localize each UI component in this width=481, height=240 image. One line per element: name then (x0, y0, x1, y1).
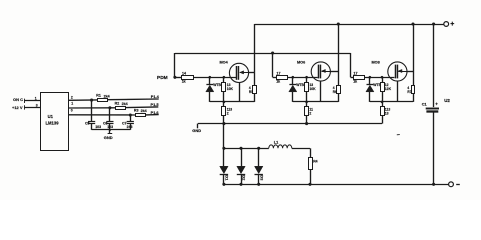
svg-text:GND: GND (192, 128, 201, 133)
svg-text:2: 2 (71, 96, 73, 100)
wire PDM riser (174, 53, 176, 77)
wire source rail MO6 (293, 101, 339, 103)
node sense-bus MO4 (222, 122, 225, 125)
svg-text:2: 2 (309, 111, 311, 115)
svg-text:MO6: MO6 (297, 61, 305, 65)
terminal + output (444, 22, 449, 27)
svg-text:1: 1 (35, 96, 37, 100)
capacitor C6 103 (109, 108, 111, 122)
resistor gate-source 10K MO4 (223, 77, 225, 82)
resistor R3 2k4 (136, 114, 146, 117)
ground GND stub (197, 124, 199, 129)
node rail-sense MO4 (223, 101, 226, 104)
svg-text:R1: R1 (96, 94, 101, 98)
svg-text:+: + (450, 21, 454, 28)
svg-text:2k4: 2k4 (141, 109, 147, 113)
resistor R1 2k4 (98, 99, 108, 102)
wire output line 3 to P1.6 (146, 114, 159, 116)
svg-text:12K: 12K (385, 87, 392, 91)
wire inductor to R14 (292, 148, 310, 150)
svg-text:17: 17 (354, 72, 358, 76)
wire output line 2 (69, 107, 116, 109)
svg-text:WTB: WTB (296, 83, 304, 87)
svg-text:U1: U1 (48, 114, 54, 119)
resistor drain-rail MO8 (413, 71, 415, 86)
resistor sense MO6 (306, 102, 308, 107)
wire source MO8 (397, 81, 399, 102)
svg-text:+12 V: +12 V (12, 105, 23, 110)
node gate-resistor MO8 (381, 76, 384, 79)
wire right rail upper (433, 24, 435, 107)
svg-text:C1: C1 (422, 103, 427, 107)
svg-text:2k4: 2k4 (104, 94, 110, 98)
resistor R2 2k4 (116, 107, 126, 110)
svg-text:2: 2 (227, 111, 229, 115)
zener diode WTB (209, 77, 211, 84)
node rail-sense MO6 (305, 101, 308, 104)
wire source rail MO8 (370, 101, 413, 103)
wire source rail MO4 (210, 101, 255, 103)
MOSFET MO6 (311, 62, 330, 81)
node gate-zener MO8 (369, 76, 372, 79)
wire negative bottom bus (224, 184, 449, 186)
resistor drain-rail MO6 (338, 71, 340, 86)
zener diode WTB (292, 77, 294, 84)
diode D3 (257, 147, 260, 150)
svg-text:1k: 1k (276, 80, 280, 84)
svg-text:GND: GND (104, 135, 113, 140)
wire source MO4 (239, 83, 241, 102)
node R14-bus (308, 183, 311, 186)
svg-text:R4: R4 (313, 160, 317, 164)
IC U1 LM139 box (41, 93, 69, 151)
resistor R14 (309, 158, 313, 170)
svg-text:LM139: LM139 (46, 120, 60, 125)
node gate-zener MO4 (209, 76, 212, 79)
inductor L1 (269, 145, 292, 148)
svg-text:D3: D3 (259, 175, 264, 181)
svg-text:10K: 10K (227, 87, 234, 91)
wire drain riser MO8 (413, 24, 415, 71)
capacitor C5 103 (91, 100, 93, 122)
resistor gate-source 10K MO6 (306, 77, 308, 82)
wire capacitor common (92, 129, 131, 131)
node stage3 drain-top (411, 22, 414, 25)
wire drain riser MO6 (338, 24, 340, 71)
wire gate MO4 (193, 77, 236, 79)
svg-text:PDM: PDM (157, 75, 168, 81)
svg-text:MO4: MO4 (220, 61, 229, 65)
svg-text:C5: C5 (85, 121, 90, 125)
svg-text:103: 103 (95, 125, 101, 129)
wire gate MO8 (365, 77, 395, 79)
wire positive top rail (255, 24, 444, 26)
wire gate MO6 (288, 77, 318, 79)
wire output line 3 (69, 114, 136, 116)
wire output line 2 to P1.5 (125, 106, 158, 109)
resistor drain-rail MO4 (254, 72, 256, 85)
svg-text:D2: D2 (242, 175, 247, 181)
svg-text:P1.5: P1.5 (151, 102, 160, 107)
wire drain MO4 (249, 72, 255, 74)
svg-text:P1.6: P1.6 (151, 110, 160, 115)
svg-text:+: + (435, 102, 438, 107)
resistor gate 1k MO6 (273, 77, 276, 79)
resistor gate-source 10K MO8 (382, 77, 384, 82)
svg-text:1: 1 (71, 101, 73, 105)
svg-text:R3: R3 (134, 109, 139, 113)
speck artifact (397, 134, 400, 136)
MOSFET MO8 (388, 62, 407, 81)
node line2-cap junction (108, 106, 111, 109)
svg-text:3: 3 (36, 103, 38, 107)
wire ground bus (198, 123, 382, 125)
svg-text:243: 243 (127, 125, 133, 129)
svg-text:13: 13 (385, 111, 389, 115)
svg-text:MO8: MO8 (372, 61, 380, 65)
node rail-sense MO8 (381, 101, 384, 104)
wire stage1 sense to diode bus (223, 124, 225, 149)
svg-text:ON C: ON C (13, 97, 23, 102)
node capacitor common to ground (109, 129, 111, 131)
node gate-resistor MO6 (305, 76, 308, 79)
wire gate drop MO6 (272, 53, 274, 77)
svg-text:WTB: WTB (213, 83, 221, 87)
svg-text:14: 14 (182, 72, 186, 76)
svg-text:R5: R5 (249, 90, 253, 94)
wire gate drop MO8 (350, 53, 352, 77)
node right rail-bottom (432, 183, 435, 186)
svg-text:1k: 1k (353, 80, 357, 84)
node sense-bus MO6 (305, 122, 308, 125)
wire gate bus (175, 53, 351, 55)
svg-text:R7: R7 (407, 90, 411, 94)
zener diode WTB (369, 77, 371, 84)
svg-text:103: 103 (107, 125, 113, 129)
node gate-resistor MO4 (223, 76, 226, 79)
svg-text:10K: 10K (309, 87, 316, 91)
svg-text:2k4: 2k4 (122, 102, 128, 106)
wire drain riser MO4 (254, 24, 256, 72)
node line3-cap junction (129, 113, 132, 116)
svg-text:17: 17 (277, 72, 281, 76)
svg-text:R2: R2 (115, 101, 120, 105)
resistor sense MO4 (223, 102, 225, 107)
wire output line 1 to P1.4 (107, 98, 158, 101)
wire R14 to minus bus (310, 170, 312, 185)
resistor sense MO8 (382, 102, 384, 107)
terminal - output (449, 182, 454, 187)
wire output line 1 (69, 99, 98, 101)
capacitor C7 243 (130, 115, 132, 122)
svg-text:0: 0 (71, 108, 73, 112)
wire right rail lower (433, 111, 435, 184)
resistor gate 1k MO8 (351, 77, 354, 79)
node PDM (173, 76, 176, 79)
resistor gate 1k MO4 (175, 77, 182, 79)
wire drain MO6 (330, 71, 338, 73)
svg-text:U2: U2 (444, 98, 450, 103)
node stage2 drain-top (337, 22, 340, 25)
diode D1 (222, 147, 225, 150)
wire drain MO8 (407, 71, 413, 73)
node gate bus stage2 tap (271, 51, 274, 54)
diode D2 (239, 147, 242, 150)
node gate-zener MO6 (292, 76, 295, 79)
svg-text:R6: R6 (333, 90, 337, 94)
node right rail-top (432, 22, 435, 25)
ground GND of capacitor bank (109, 130, 111, 134)
wire source MO6 (320, 81, 322, 102)
node line1-cap junction (90, 99, 93, 102)
svg-text:P1.4: P1.4 (151, 94, 160, 99)
wire IC pin 3 input (24, 107, 41, 109)
MOSFET MO4 (229, 63, 248, 82)
svg-text:1k: 1k (182, 80, 186, 84)
svg-text:L1: L1 (274, 141, 278, 145)
svg-text:D1: D1 (225, 175, 230, 181)
wire diode top bus (224, 148, 269, 150)
wire IC pin 1 input (24, 100, 41, 102)
